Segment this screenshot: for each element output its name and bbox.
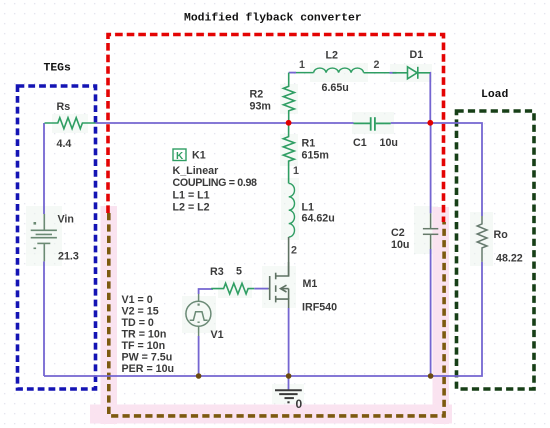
Load dashed box (dark green) [457, 111, 535, 389]
wire bottom rail [44, 262, 482, 376]
svg-text:615m: 615m [302, 150, 329, 162]
svg-text:C2: C2 [391, 227, 405, 239]
svg-text:TEGs: TEGs [44, 63, 72, 75]
svg-text:K: K [176, 151, 184, 162]
wire L1 to MOSFET drain [288, 237, 290, 276]
svg-text:6.65u: 6.65u [322, 82, 349, 94]
svg-text:0: 0 [296, 397, 303, 411]
battery Vin [31, 214, 57, 261]
svg-text:PW = 7.5u: PW = 7.5u [122, 352, 173, 364]
svg-text:TF = 10n: TF = 10n [122, 340, 166, 352]
wire MOSFET source down [288, 308, 290, 376]
wire [391, 123, 482, 216]
svg-text:5: 5 [236, 266, 242, 278]
svg-text:IRF540: IRF540 [302, 302, 337, 314]
svg-text:R3: R3 [210, 266, 224, 278]
V1 parameter text [122, 294, 175, 375]
battery polarity marks [34, 222, 37, 249]
wire R3 to gate [254, 288, 268, 290]
wire [43, 261, 45, 376]
wire [296, 72, 314, 74]
svg-text:K1: K1 [192, 150, 206, 162]
junction node V1 bottom [196, 373, 202, 379]
driver dashed box (brown) [109, 213, 444, 416]
svg-text:L2: L2 [326, 50, 339, 62]
svg-text:TR = 10n: TR = 10n [122, 329, 167, 341]
svg-text:64.62u: 64.62u [302, 213, 335, 225]
svg-text:2: 2 [374, 59, 380, 71]
ground [275, 377, 302, 402]
svg-text:R2: R2 [250, 89, 264, 101]
converter dashed box (red) [108, 35, 444, 223]
svg-text:Rs: Rs [57, 101, 71, 113]
svg-text:K_Linear: K_Linear [173, 165, 219, 177]
svg-text:COUPLING = 0.98: COUPLING = 0.98 [173, 177, 258, 189]
resistor R2 [283, 73, 294, 123]
resistor R1 [283, 123, 294, 164]
svg-text:TD = 0: TD = 0 [122, 317, 154, 329]
wire left vertical (source loop) [43, 123, 45, 214]
svg-text:C1: C1 [353, 137, 367, 149]
svg-text:V2 = 15: V2 = 15 [122, 306, 159, 318]
junction node R2/R1 (red) [286, 120, 292, 126]
svg-text:1: 1 [299, 59, 305, 71]
coupling K1 symbol [173, 149, 186, 162]
svg-text:V1 = 0: V1 = 0 [122, 294, 153, 306]
svg-text:M1: M1 [303, 278, 318, 290]
svg-text:21.3: 21.3 [58, 251, 79, 263]
svg-text:L2 = L2: L2 = L2 [173, 202, 210, 214]
inductor L1 [289, 164, 295, 238]
pale tint patches [26, 63, 493, 404]
wire V1 bottom [198, 336, 200, 376]
wire diode to node [429, 73, 431, 123]
resistor Rs [45, 118, 96, 129]
svg-text:PER = 10u: PER = 10u [122, 363, 175, 375]
svg-text:L1 = L1: L1 = L1 [173, 190, 210, 202]
MOSFET M1 [268, 262, 288, 308]
wire top-left horizontal [96, 122, 289, 124]
resistor Ro [477, 216, 487, 262]
svg-text:4.4: 4.4 [57, 138, 72, 150]
svg-text:Vin: Vin [58, 214, 74, 226]
diode D1 [393, 67, 431, 79]
junction node ground [286, 373, 292, 379]
svg-text:93m: 93m [250, 101, 271, 113]
capacitor C2 [423, 213, 438, 249]
svg-text:Modified flyback converter: Modified flyback converter [184, 13, 362, 25]
svg-text:2: 2 [291, 245, 297, 257]
TEGs dashed box (blue) [18, 86, 96, 389]
highlight band around driver annotation box [90, 206, 452, 424]
svg-text:Ro: Ro [494, 229, 509, 241]
svg-text:10u: 10u [380, 137, 398, 149]
wire C2 branch upper [430, 123, 432, 213]
pulse source V1 [186, 294, 211, 336]
svg-text:1: 1 [293, 165, 299, 177]
svg-text:Load: Load [481, 89, 509, 101]
wire L2 to diode [364, 72, 390, 74]
svg-text:D1: D1 [410, 49, 424, 61]
wire C2 branch lower [430, 249, 432, 376]
junction node diode/C2 (red) [427, 120, 433, 126]
svg-text:48.22: 48.22 [496, 253, 523, 265]
capacitor C1 [354, 117, 391, 131]
V1 polarity marks [198, 304, 200, 323]
svg-text:10u: 10u [391, 239, 409, 251]
resistor R3 [211, 283, 254, 294]
wire mid horizontal [289, 122, 354, 124]
wire V1 top to R3 [199, 289, 213, 294]
junction node C2 bottom [428, 373, 434, 379]
svg-text:V1: V1 [211, 329, 224, 341]
wire [390, 72, 397, 74]
svg-text:R1: R1 [302, 138, 316, 150]
inductor L2 [314, 68, 364, 73]
wire L2 left lead [289, 72, 296, 74]
